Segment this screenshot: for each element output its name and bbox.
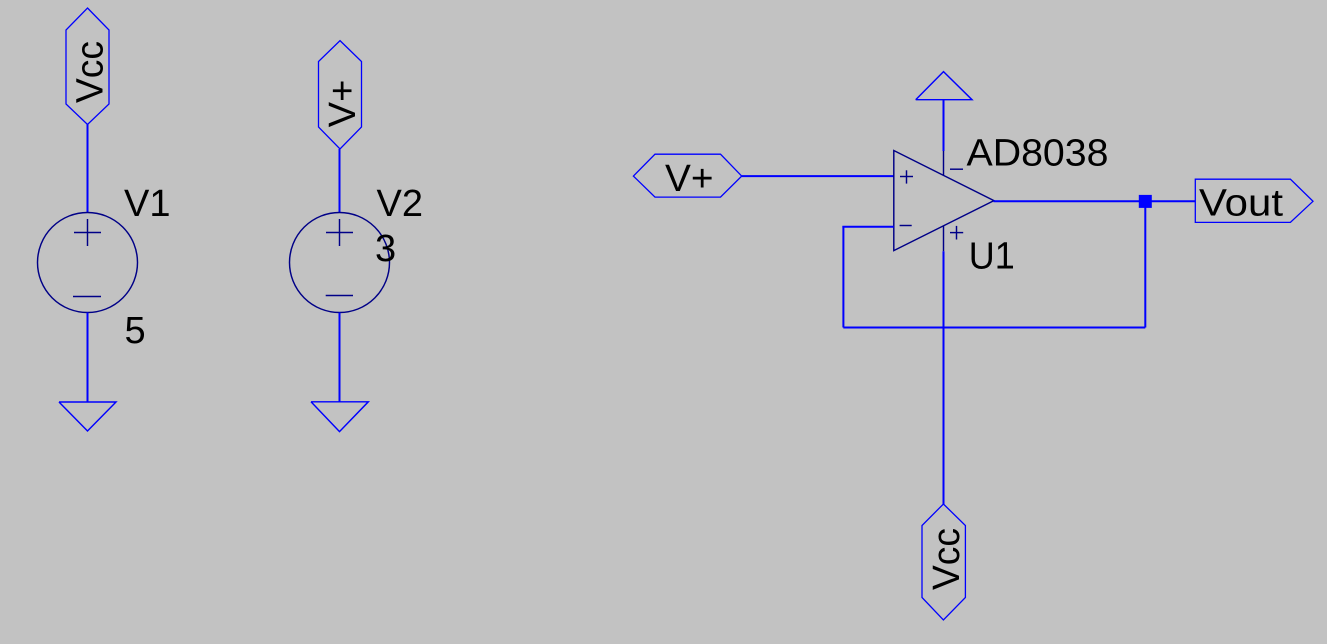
svg-text:V+: V+ [322, 80, 364, 128]
op-amp U1 triangle [894, 151, 994, 252]
svg-text:V1: V1 [124, 183, 170, 225]
+ input mark [900, 176, 913, 178]
net flag V+ (V2 top) [319, 41, 362, 149]
wire op-amp top to ground [943, 100, 945, 151]
svg-text:V+: V+ [665, 158, 714, 200]
top pin [943, 151, 945, 175]
ground (V1) [59, 402, 116, 431]
- input mark [900, 225, 912, 227]
svg-text:V2: V2 [377, 183, 423, 225]
svg-text:5: 5 [125, 310, 146, 352]
minus supply mark [950, 168, 963, 170]
output wire [994, 200, 1196, 202]
feedback wire to inverting input [842, 226, 893, 228]
svg-text:Vout: Vout [1199, 182, 1283, 224]
svg-text:Vcc: Vcc [70, 41, 112, 103]
bottom pin [943, 226, 945, 251]
svg-text:Vcc: Vcc [926, 528, 968, 590]
net flag Vcc (op-amp supply) [922, 504, 965, 620]
svg-text:3: 3 [375, 228, 396, 270]
wire V+ to op-amp [742, 175, 894, 177]
wire V2 bottom [339, 313, 341, 403]
voltage source V1 [38, 213, 138, 313]
junction [1139, 195, 1152, 208]
feedback wire right down [1144, 201, 1146, 327]
net flag Vcc (V1 top) [66, 8, 109, 125]
plus supply mark [950, 232, 963, 234]
wire V2 top [339, 149, 341, 213]
feedback wire left [842, 226, 844, 328]
ground (V2) [311, 402, 368, 432]
wire op-amp bottom to Vcc flag [943, 251, 945, 504]
svg-text:AD8038: AD8038 [967, 132, 1109, 174]
net flag V+ (op-amp input, horizontal) [633, 154, 741, 197]
ground (op-amp V-) up triangle [916, 72, 972, 100]
net flag Vout [1195, 179, 1313, 222]
wire V1 bottom [87, 313, 89, 403]
svg-text:U1: U1 [969, 236, 1015, 278]
voltage source V2 [290, 213, 390, 313]
feedback wire bottom [843, 327, 1145, 329]
wire V1 top [87, 125, 89, 214]
